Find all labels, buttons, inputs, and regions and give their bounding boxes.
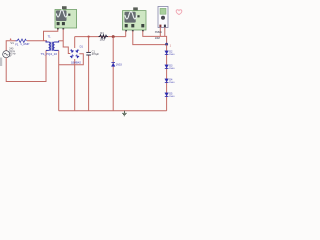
wire: scope1 channel A tap [44,29,58,41]
svg-text:F1: F1 [15,43,19,47]
wire: main DC bus [75,36,126,38]
heart icon [176,10,182,15]
wire: secondary bottom and to bridge right [59,51,84,111]
transformer T1 [46,41,59,51]
svg-text:XMM1: XMM1 [155,31,163,34]
svg-text:10Ω: 10Ω [100,38,105,42]
svg-text:1N40: 1N40 [169,68,175,70]
svg-text:V1: V1 [10,41,14,45]
junction dot at load tap [112,35,115,38]
wire: zener rail [112,37,114,111]
svg-text:TS_PQ4_10: TS_PQ4_10 [41,52,58,56]
diode bridge D1 [70,49,79,58]
svg-text:1N53: 1N53 [116,63,123,66]
wire: scope2 third pin to node [143,31,167,45]
junction dot at C1 tap [88,36,90,38]
wire: series diode string rail [166,45,168,111]
wire: multimeter leads [160,27,165,36]
svg-text:1N40: 1N40 [169,54,175,56]
diode D3 [165,65,169,69]
capacitor C1 [86,52,91,55]
wire: C1 rail [88,37,90,111]
oscilloscope XSC1 [55,6,77,29]
svg-text:470µF: 470µF [92,52,100,56]
stray mark left edge [0,58,2,67]
wire: fuse to transformer primary [27,40,47,42]
svg-text:0°: 0° [9,55,11,58]
multimeter XMM1 [158,7,168,28]
diode D2 [165,51,169,55]
wire: scope1 channel B to bridge left [63,29,70,54]
junction dot at diode string top [165,43,168,46]
fuse F1 [16,39,27,43]
resistor R1 [99,35,109,39]
svg-text:10M: 10M [155,36,160,40]
wire: bridge minus down [74,59,76,111]
wire: bridge plus output up [74,37,76,48]
svg-text:1N40: 1N40 [169,82,175,84]
wire: transformer secondary top [59,40,64,42]
zener diode on rail [111,63,115,67]
wire: source top lead [6,41,15,51]
wire: scope2 channel A stub [125,31,127,36]
wire: primary return loop [6,50,46,81]
AC source V1 [3,38,12,57]
svg-text:D1: D1 [80,45,84,49]
svg-text:1_AMP: 1_AMP [20,42,29,46]
oscilloscope XSC2 [123,7,147,31]
ground [122,111,127,116]
wire: bottom rail [59,110,167,112]
svg-text:1N40: 1N40 [169,96,175,98]
diode D4 [165,79,169,83]
svg-text:R1: R1 [100,31,104,35]
wire: scope2 channel B to measure node [133,31,167,44]
svg-text:1B4B42: 1B4B42 [71,60,81,64]
diode D5 [165,93,169,97]
